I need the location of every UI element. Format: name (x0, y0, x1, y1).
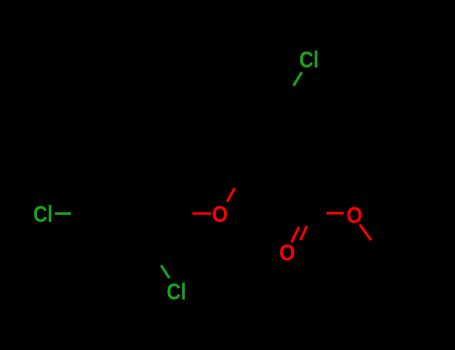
bond O(ester)-CH2 red half (360, 225, 371, 241)
bond C2'-Cl black half (ring side) (154, 253, 161, 266)
svg-text:O: O (347, 202, 363, 228)
double bond C=O red half, left line (292, 227, 299, 243)
bond C(carbonyl)-O(ester) red half (327, 212, 344, 215)
bond C4'-Cl green half (55, 212, 71, 215)
bond C1'-O(ether) red half (192, 212, 211, 215)
bond C1'-O(ether) black half (ring side) (177, 212, 193, 215)
bond CH2-CH3 black (377, 214, 400, 253)
bond C1-C(carbonyl) black (287, 177, 312, 215)
bond O(ether)-C2 red half (227, 188, 235, 202)
svg-text:Cl: Cl (33, 201, 53, 227)
bond C(carbonyl)-O(ester) black half (carbon side) (312, 212, 327, 215)
double bond C=O black halves (carbon side) (299, 212, 306, 226)
svg-text:Cl: Cl (167, 278, 187, 304)
left benzene ring (2,4-dichlorophenyl), carbon bonds black on black (86, 174, 177, 252)
right benzene ring (benzoate ring), carbon bonds black on black (219, 98, 309, 176)
svg-text:O: O (279, 240, 295, 266)
bond C2'-Cl green half (161, 265, 169, 278)
double bond C=O red half, right line (301, 226, 307, 240)
svg-text:O: O (212, 201, 228, 227)
bond O(ether)-C2 black half (ring side) (235, 177, 242, 189)
bond C4'-Cl black half (ring side) (71, 212, 86, 215)
svg-text:Cl: Cl (299, 46, 319, 72)
bond O(ester)-CH2 black half (carbon side) (371, 240, 377, 252)
bond C5-Cl green half (294, 72, 302, 86)
bond C5-Cl black half (ring side) (287, 86, 294, 98)
